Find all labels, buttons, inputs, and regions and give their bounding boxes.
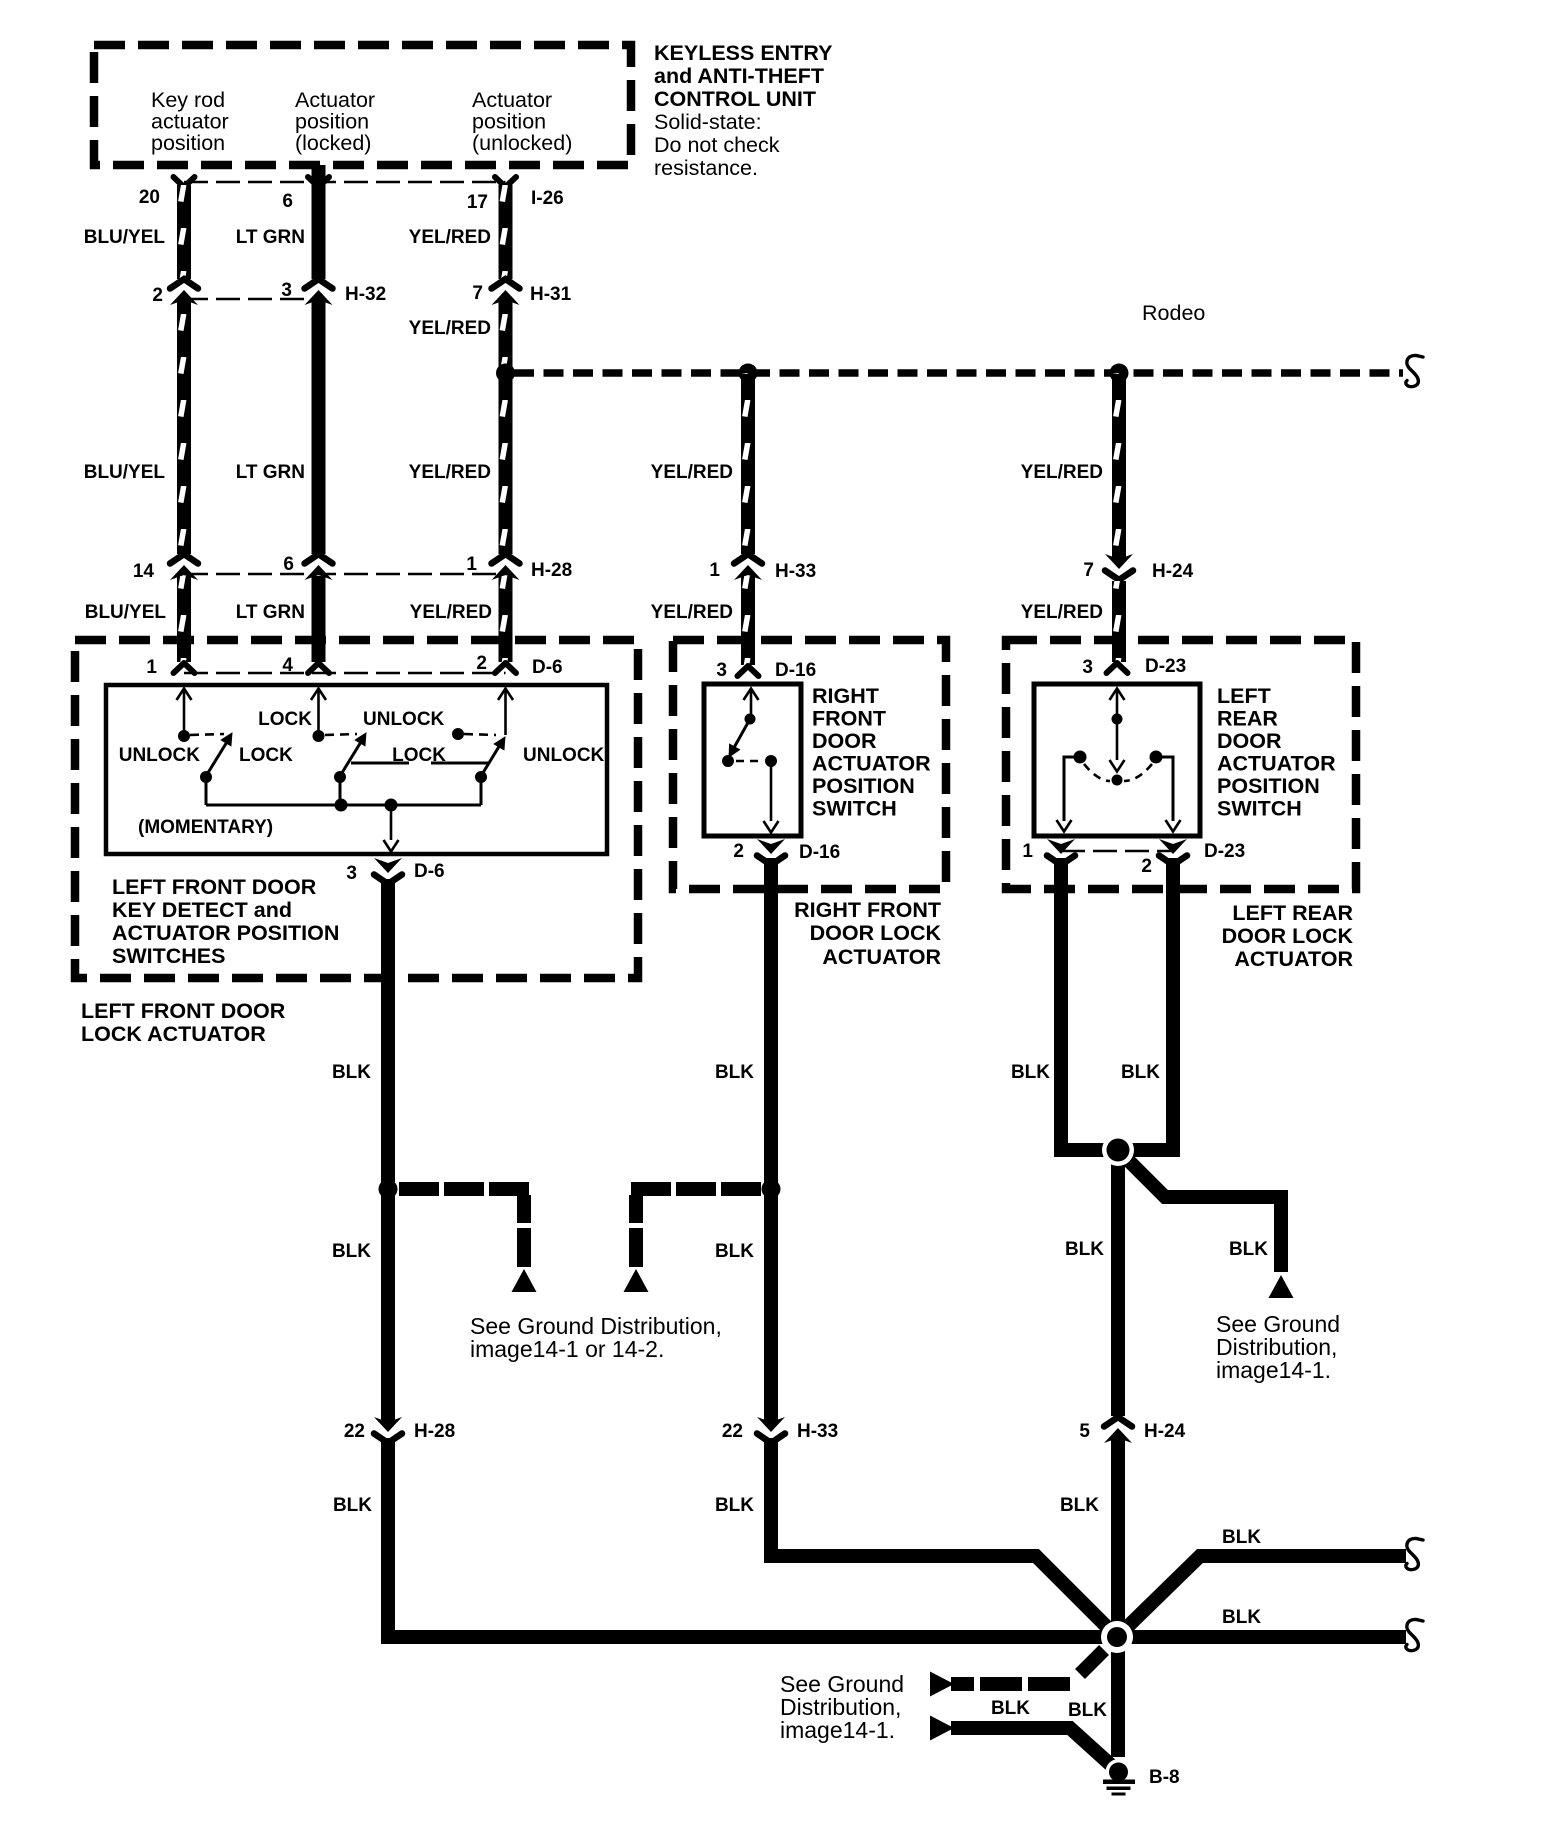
svg-text:Actuator: Actuator — [472, 88, 552, 112]
svg-text:YEL/RED: YEL/RED — [651, 602, 733, 623]
svg-text:7: 7 — [1083, 560, 1094, 581]
svg-text:17: 17 — [467, 192, 488, 213]
LR switch contact dot left — [1074, 751, 1087, 764]
wire YEL/RED from pin 17 — [499, 185, 513, 279]
RF switch top dot — [745, 714, 756, 725]
svg-text:BLK: BLK — [1065, 1239, 1104, 1260]
splice dot left front BLK — [379, 1180, 398, 1199]
svg-text:H-32: H-32 — [345, 284, 386, 305]
svg-text:BLK: BLK — [332, 1062, 371, 1083]
ground distribution triangle lower (points left) — [930, 1716, 954, 1741]
connector D-6 pin 1 — [174, 663, 195, 673]
left rear actuator position switch solid box — [1034, 684, 1200, 836]
wire LT GRN lower — [312, 576, 326, 662]
svg-text:LEFT REAR: LEFT REAR — [1232, 901, 1353, 925]
BLK wire down to ground B-8 — [1111, 1637, 1125, 1757]
connector I-26 pin 20 — [174, 177, 195, 187]
svg-text:Key rod: Key rod — [151, 88, 225, 112]
svg-text:6: 6 — [283, 554, 294, 575]
switch B blade — [340, 737, 364, 776]
connector H-24 pin 7 — [1105, 554, 1133, 580]
svg-text:H-31: H-31 — [530, 284, 572, 305]
svg-text:image14-1 or 14-2.: image14-1 or 14-2. — [470, 1336, 664, 1362]
connector H-31 pin 7 — [492, 279, 520, 305]
svg-text:SWITCH: SWITCH — [812, 797, 897, 821]
BLK wire from right front door pin 2 (upper) — [764, 858, 778, 1422]
svg-text:KEYLESS ENTRY: KEYLESS ENTRY — [654, 41, 832, 65]
BLK wires from left rear door pins 1,2 — [1061, 858, 1118, 1150]
left front door lock actuator dashed box — [75, 640, 638, 978]
svg-text:BLK: BLK — [715, 1495, 754, 1516]
svg-text:YEL/RED: YEL/RED — [409, 227, 491, 248]
connector H-32 pin 3 — [305, 279, 333, 305]
svg-text:1: 1 — [466, 554, 477, 575]
svg-text:BLU/YEL: BLU/YEL — [84, 462, 166, 483]
svg-text:3: 3 — [346, 863, 357, 884]
svg-text:(locked): (locked) — [295, 131, 371, 155]
switch A (key rod) arrow into pin 1 — [177, 689, 192, 701]
svg-text:DOOR: DOOR — [1217, 729, 1282, 753]
LR switch plunger with arrow down — [1116, 719, 1119, 760]
connector D-23 pin 3 — [1107, 663, 1128, 673]
wire LT GRN mid — [312, 300, 326, 554]
note: see ground distribution 14-1 or 14-2 — [470, 1313, 722, 1362]
splice junction left rear (ring dot) — [1102, 1134, 1134, 1166]
wire BLU/YEL lower — [177, 576, 191, 662]
svg-text:BLK: BLK — [1229, 1239, 1268, 1260]
svg-text:LEFT: LEFT — [1217, 684, 1271, 708]
connector D-6 strip — [184, 672, 506, 675]
control unit title text — [654, 41, 832, 180]
ground drop triangle 3 — [1269, 1275, 1294, 1298]
svg-text:Actuator: Actuator — [295, 88, 375, 112]
diagonal BLK branch to ground drop 3 — [1122, 1154, 1281, 1272]
svg-text:ACTUATOR: ACTUATOR — [822, 945, 941, 969]
connector D-23 pin 2 — [1159, 839, 1187, 865]
svg-text:BLK: BLK — [1121, 1062, 1160, 1083]
svg-text:(MOMENTARY): (MOMENTARY) — [138, 817, 273, 838]
svg-text:22: 22 — [722, 1421, 743, 1442]
wire BLU/YEL from pin 20 — [177, 185, 191, 279]
right front actuator position switch solid box — [704, 684, 801, 836]
central splice ring dot — [1101, 1621, 1133, 1653]
svg-text:D-23: D-23 — [1204, 841, 1245, 862]
wire YEL/RED mid — [499, 300, 513, 554]
connector row I-26 dashed strip — [184, 181, 506, 184]
svg-text:BLK: BLK — [1068, 1700, 1107, 1721]
svg-text:position: position — [472, 110, 546, 134]
svg-text:20: 20 — [139, 187, 160, 208]
svg-text:UNLOCK: UNLOCK — [523, 745, 605, 766]
svg-text:4: 4 — [282, 655, 293, 676]
switch B pivot dot — [334, 771, 346, 783]
title: left front door key detect and actuator position switches — [112, 875, 339, 968]
connector H-24 pin 5 — [1104, 1417, 1132, 1443]
LR switch top dot — [1112, 714, 1123, 725]
svg-text:5: 5 — [1079, 1421, 1090, 1442]
svg-text:3: 3 — [1082, 657, 1093, 678]
switch C blade — [481, 740, 503, 776]
wire YEL/RED branch lower (right front) — [741, 576, 755, 665]
svg-text:6: 6 — [282, 191, 293, 212]
key detect / actuator position switch solid box — [106, 685, 607, 854]
svg-text:1: 1 — [1022, 841, 1033, 862]
svg-text:1: 1 — [709, 560, 720, 581]
svg-text:UNLOCK: UNLOCK — [119, 745, 201, 766]
LR switch dashed arc left — [1084, 764, 1110, 781]
svg-text:position: position — [151, 131, 225, 155]
svg-text:BLK: BLK — [333, 1495, 372, 1516]
svg-text:SWITCH: SWITCH — [1217, 797, 1302, 821]
RF switch contact dot left — [722, 755, 734, 767]
svg-text:ACTUATOR POSITION: ACTUATOR POSITION — [112, 921, 339, 945]
wire-break squiggle upper right — [1406, 1538, 1423, 1569]
svg-text:LEFT FRONT DOOR: LEFT FRONT DOOR — [112, 875, 317, 899]
connector D-16 pin 3 — [738, 666, 759, 676]
switch A pivot dot — [200, 771, 212, 783]
svg-text:BLK: BLK — [1060, 1495, 1099, 1516]
BLK wire from left front door pin 3 (upper) — [381, 879, 395, 1422]
output wire with arrow to pin 3 — [390, 805, 393, 840]
dashed BLK ground branch right — [629, 1182, 761, 1196]
RF switch contact dot right — [765, 755, 777, 767]
note: see ground distribution image14-1 (bottom) — [780, 1671, 904, 1743]
RF switch arrow up — [744, 689, 759, 701]
svg-text:resistance.: resistance. — [654, 156, 758, 180]
BLK wire right to break — [1117, 1630, 1406, 1644]
connector H-28 pin 14 — [170, 554, 198, 580]
svg-text:(unlocked): (unlocked) — [472, 131, 572, 155]
svg-text:BLK: BLK — [1011, 1062, 1050, 1083]
control unit internal labels — [151, 88, 572, 155]
RF switch blade — [731, 719, 750, 753]
svg-text:ACTUATOR: ACTUATOR — [812, 752, 931, 776]
svg-text:1: 1 — [146, 657, 157, 678]
svg-text:CONTROL UNIT: CONTROL UNIT — [654, 87, 816, 111]
connector H-28 pin 6 — [305, 554, 333, 580]
svg-text:and ANTI-THEFT: and ANTI-THEFT — [654, 64, 824, 88]
RF switch wire down with arrow — [770, 761, 773, 821]
connector I-26 pin 6 — [308, 177, 329, 187]
svg-text:DOOR LOCK: DOOR LOCK — [810, 921, 942, 945]
splice dot right front BLK — [762, 1180, 781, 1199]
svg-text:H-33: H-33 — [775, 561, 816, 582]
svg-text:LOCK: LOCK — [239, 745, 293, 766]
wire LT GRN from pin 6 — [312, 165, 326, 279]
svg-text:I-26: I-26 — [531, 188, 564, 209]
switch A wire to bus — [205, 777, 208, 805]
svg-text:H-28: H-28 — [414, 1421, 455, 1442]
svg-text:BLU/YEL: BLU/YEL — [84, 227, 166, 248]
svg-text:LOCK: LOCK — [258, 709, 312, 730]
svg-text:LEFT FRONT DOOR: LEFT FRONT DOOR — [81, 999, 286, 1023]
connector D-6 pin 2 — [495, 663, 516, 673]
BLK wire to central splice — [1111, 1438, 1125, 1637]
svg-text:LT GRN: LT GRN — [236, 462, 305, 483]
svg-text:RIGHT FRONT: RIGHT FRONT — [794, 898, 941, 922]
svg-text:position: position — [295, 110, 369, 134]
LR switch contact dot right — [1150, 751, 1163, 764]
svg-text:H-24: H-24 — [1152, 561, 1194, 582]
svg-text:D-23: D-23 — [1145, 656, 1186, 677]
connector D-23 strip — [1061, 850, 1173, 853]
svg-text:14: 14 — [133, 561, 155, 582]
switch C pivot dot — [475, 771, 487, 783]
svg-text:actuator: actuator — [151, 110, 229, 134]
title: right front door lock actuator — [794, 898, 941, 969]
svg-text:H-28: H-28 — [531, 560, 572, 581]
svg-text:YEL/RED: YEL/RED — [410, 602, 492, 623]
title: right front door actuator position switch — [812, 684, 931, 821]
LR switch arrow up — [1110, 689, 1125, 701]
ground B-8 symbol — [1103, 1759, 1135, 1796]
svg-text:ACTUATOR: ACTUATOR — [1217, 752, 1336, 776]
wire YEL/RED branch lower (left rear) — [1112, 581, 1126, 662]
svg-text:KEY DETECT and: KEY DETECT and — [112, 898, 292, 922]
splice dot branch 2 — [1110, 364, 1129, 383]
switch A blade — [206, 737, 230, 776]
svg-text:H-24: H-24 — [1144, 1421, 1186, 1442]
wire-break squiggle lower right — [1406, 1619, 1423, 1650]
svg-text:POSITION: POSITION — [1217, 774, 1320, 798]
svg-text:image14-1.: image14-1. — [780, 1717, 895, 1743]
svg-text:BLK: BLK — [1222, 1607, 1261, 1628]
LR switch right leg to pin 2 — [1156, 757, 1173, 821]
connector H-33 pin 1 — [734, 554, 762, 580]
ground distribution triangle upper (points left) — [930, 1672, 954, 1697]
svg-text:SWITCHES: SWITCHES — [112, 944, 225, 968]
svg-text:YEL/RED: YEL/RED — [1021, 602, 1103, 623]
svg-text:3: 3 — [716, 660, 727, 681]
svg-text:B-8: B-8 — [1149, 1767, 1180, 1788]
switch B mechanical dashed link — [325, 734, 357, 735]
svg-text:2: 2 — [1141, 856, 1152, 877]
svg-text:REAR: REAR — [1217, 707, 1278, 731]
svg-text:DOOR: DOOR — [812, 729, 877, 753]
bus output junction dot — [385, 799, 398, 812]
BLK wire up-right to break — [1117, 1556, 1406, 1637]
svg-text:7: 7 — [472, 283, 483, 304]
svg-text:D-6: D-6 — [532, 657, 563, 678]
connector D-6 pin 3 — [374, 858, 402, 884]
switch C wire to bus — [480, 777, 483, 805]
switch A mechanical dashed link — [190, 734, 224, 735]
svg-text:BLK: BLK — [991, 1698, 1030, 1719]
svg-text:ACTUATOR: ACTUATOR — [1234, 947, 1353, 971]
svg-text:3: 3 — [281, 280, 292, 301]
svg-text:H-33: H-33 — [797, 1421, 838, 1442]
title: left rear door actuator position switch — [1217, 684, 1336, 821]
left rear door lock actuator dashed box — [1006, 640, 1356, 889]
connector H-32 strip — [184, 298, 319, 301]
connector I-26 pin 17 — [495, 177, 516, 187]
connector D-6 pin 4 — [308, 663, 329, 673]
solid BLK branch to ground distribution (lower) — [951, 1728, 1112, 1766]
svg-text:DOOR LOCK: DOOR LOCK — [1222, 924, 1354, 948]
LR switch dashed arc right — [1124, 764, 1152, 781]
svg-text:2: 2 — [733, 841, 744, 862]
svg-text:RIGHT: RIGHT — [812, 684, 879, 708]
splice dot branch 1 — [739, 364, 758, 383]
connector H-32 pin 2 — [170, 279, 198, 305]
connector H-28 pin 22 — [374, 1417, 402, 1443]
dashed BLK ground branch left — [399, 1182, 531, 1196]
svg-text:Rodeo: Rodeo — [1142, 301, 1205, 325]
svg-text:YEL/RED: YEL/RED — [1021, 462, 1103, 483]
svg-text:D-16: D-16 — [799, 842, 840, 863]
LR switch left leg to pin 1 — [1064, 757, 1080, 821]
switch B contact dot — [313, 730, 325, 742]
svg-text:YEL/RED: YEL/RED — [409, 318, 491, 339]
svg-text:LT GRN: LT GRN — [236, 602, 305, 623]
svg-text:Do not check: Do not check — [654, 133, 780, 157]
svg-text:D-6: D-6 — [414, 861, 445, 882]
dashed BLK branch to ground distribution (upper) — [1080, 1650, 1104, 1674]
svg-text:BLK: BLK — [1222, 1527, 1261, 1548]
svg-text:BLK: BLK — [715, 1241, 754, 1262]
svg-text:BLU/YEL: BLU/YEL — [85, 602, 167, 623]
svg-text:2: 2 — [152, 285, 163, 306]
connector H-33 pin 22 — [757, 1417, 785, 1443]
svg-text:LOCK ACTUATOR: LOCK ACTUATOR — [81, 1022, 266, 1046]
BLK wire right front to splice (lower) — [771, 1438, 1117, 1637]
keyless entry and anti-theft control unit (dashed box) — [94, 45, 631, 165]
BLK wire left front to splice (lower) — [388, 1438, 1117, 1637]
connector D-23 pin 1 — [1047, 839, 1075, 865]
wire-break squiggle right end — [1406, 355, 1423, 386]
wire YEL/RED lower — [499, 576, 513, 662]
title: left rear door lock actuator — [1222, 901, 1354, 971]
ground drop triangle 2 — [624, 1269, 649, 1292]
RF switch dashed link — [736, 760, 763, 763]
svg-text:BLK: BLK — [332, 1241, 371, 1262]
bus junction dot B — [335, 799, 348, 812]
svg-text:UNLOCK: UNLOCK — [363, 709, 445, 730]
svg-text:image14-1.: image14-1. — [1216, 1357, 1331, 1383]
LR switch center contact dot — [1112, 775, 1123, 786]
wire YEL/RED branch to right front door — [741, 373, 755, 554]
Rodeo option dashed wire — [514, 369, 1403, 377]
svg-text:22: 22 — [344, 1421, 365, 1442]
switch B wire to bus — [339, 777, 342, 805]
switch C mechanical dashed link — [464, 734, 496, 735]
right front door lock actuator dashed box — [673, 640, 946, 889]
switch C contact dot — [452, 728, 464, 740]
ganged switch dashed link B-C — [351, 762, 493, 765]
svg-text:Solid-state:: Solid-state: — [654, 110, 762, 134]
wire BLU/YEL mid — [177, 300, 191, 554]
switch common bus — [206, 804, 481, 807]
switch B arrow into pin 4 — [311, 689, 326, 701]
svg-text:D-16: D-16 — [775, 660, 816, 681]
svg-text:BLK: BLK — [715, 1062, 754, 1083]
wire YEL/RED branch to left rear door — [1112, 373, 1126, 560]
svg-text:FRONT: FRONT — [812, 707, 886, 731]
BLK wire below left rear junction — [1111, 1150, 1125, 1416]
switch A contact dot — [178, 730, 190, 742]
ground drop triangle 1 — [512, 1269, 537, 1292]
svg-text:2: 2 — [476, 653, 487, 674]
switch C arrow into pin 2 — [498, 689, 513, 701]
svg-text:LT GRN: LT GRN — [236, 227, 305, 248]
connector D-16 pin 2 — [757, 839, 785, 865]
connector H-28 pin 1 — [492, 554, 520, 580]
splice dot on YEL/RED wire — [496, 364, 515, 383]
connector H-28 strip — [184, 573, 506, 576]
svg-text:YEL/RED: YEL/RED — [409, 462, 491, 483]
svg-text:YEL/RED: YEL/RED — [651, 462, 733, 483]
svg-text:POSITION: POSITION — [812, 774, 915, 798]
note: see ground distribution 14-1 — [1216, 1311, 1340, 1383]
title: left front door lock actuator — [81, 999, 286, 1046]
